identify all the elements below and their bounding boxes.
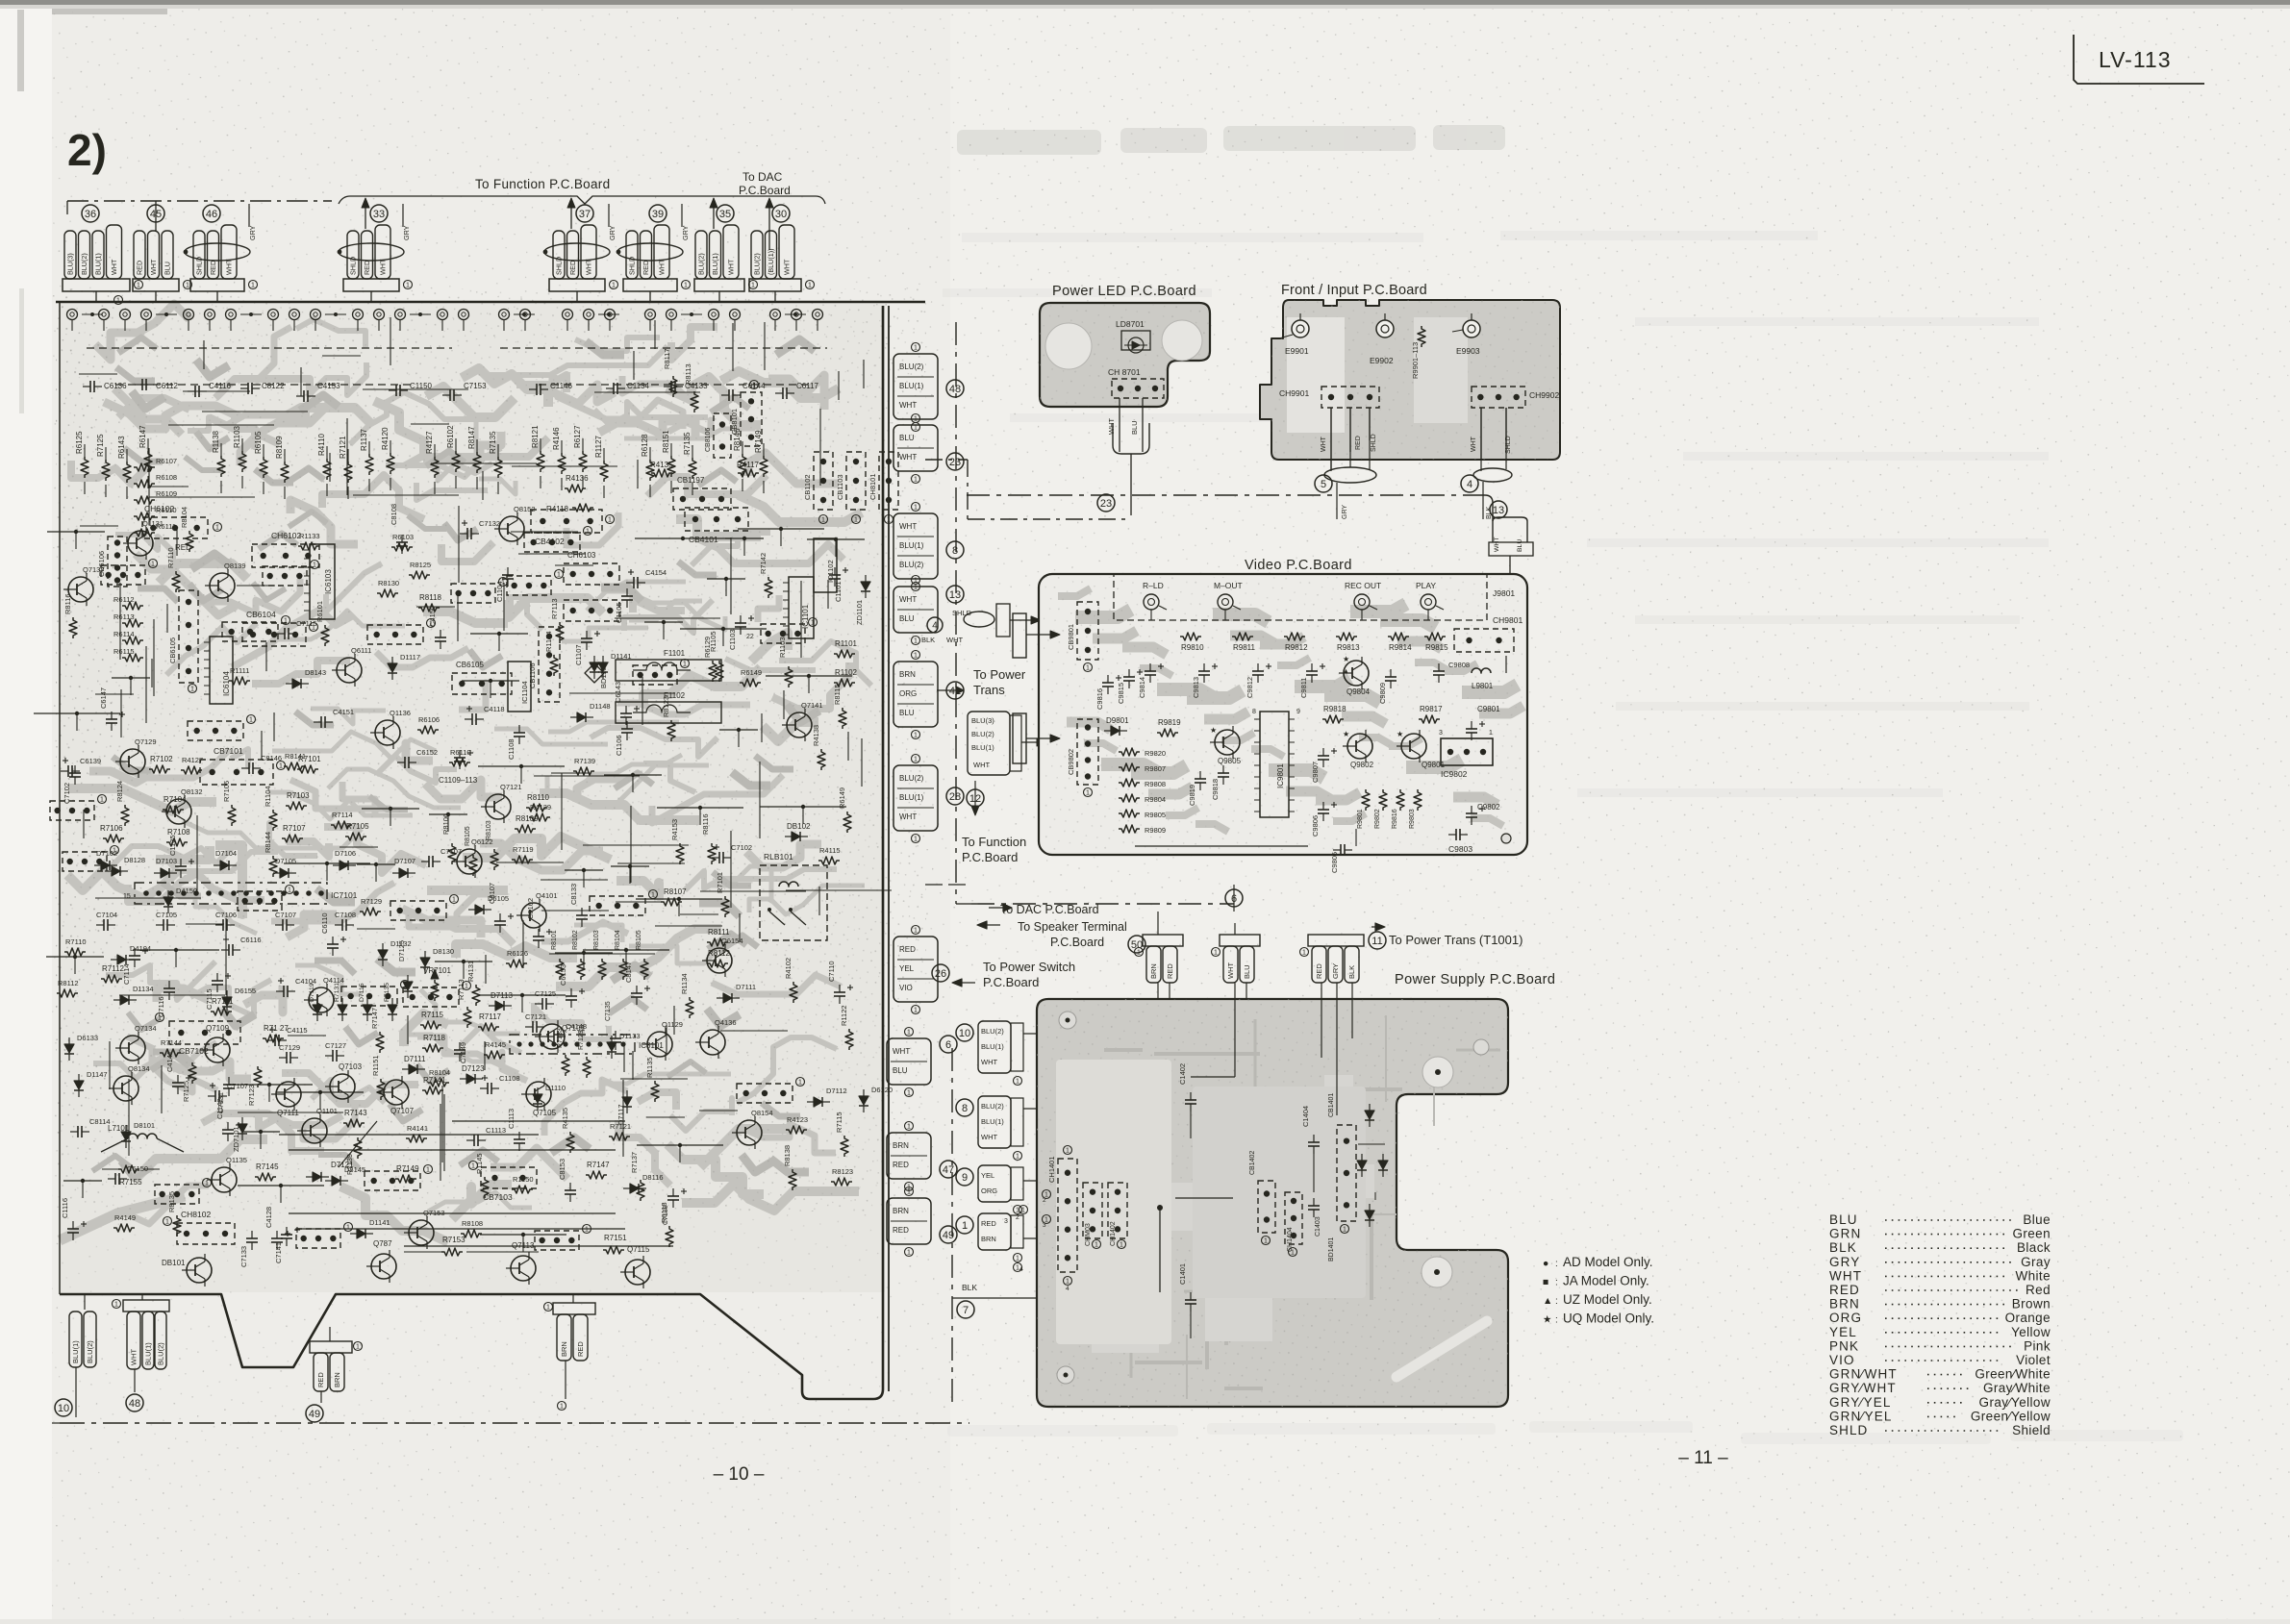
- svg-text:Yellow: Yellow: [2011, 1325, 2051, 1339]
- wire: [480, 1234, 566, 1236]
- capacitor C8143: [194, 386, 196, 397]
- svg-text:D9801: D9801: [1106, 716, 1129, 725]
- svg-text:BD1101: BD1101: [599, 662, 608, 688]
- svg-text:IC6104: IC6104: [222, 671, 231, 696]
- capacitor C7102: [69, 772, 81, 774]
- svg-text:R7125: R7125: [182, 1081, 190, 1102]
- wire: [462, 680, 519, 682]
- svg-text:1: 1: [356, 1344, 360, 1351]
- svg-text:GRY: GRY: [1829, 1255, 1860, 1269]
- svg-text:C4154: C4154: [645, 568, 667, 577]
- capacitor C4127: [228, 944, 230, 956]
- svg-text:C9808: C9808: [1448, 661, 1470, 669]
- svg-text:Q7129: Q7129: [135, 737, 157, 746]
- resistor R4103: [428, 1079, 449, 1087]
- svg-text:R8105: R8105: [465, 826, 471, 846]
- svg-text:C1103: C1103: [728, 629, 737, 650]
- svg-text:BLK: BLK: [921, 636, 935, 644]
- circled 4 shield: [927, 617, 943, 633]
- svg-text:R6111: R6111: [156, 522, 176, 531]
- transistor Q1104: [409, 1220, 434, 1245]
- svg-text:R9801: R9801: [1357, 809, 1364, 829]
- svg-text:Green: Green: [2012, 1227, 2051, 1241]
- svg-text:WHT: WHT: [1321, 436, 1327, 452]
- svg-text:1: 1: [1095, 1242, 1098, 1249]
- svg-text:C4118: C4118: [484, 705, 505, 713]
- svg-text:BLU(2): BLU(2): [80, 253, 88, 275]
- front input outline: [1260, 300, 1560, 460]
- resistor R8116: [708, 843, 716, 864]
- resistor R4136: [565, 485, 586, 492]
- svg-text:R1134: R1134: [680, 973, 689, 994]
- svg-text:E9901: E9901: [1285, 346, 1309, 356]
- svg-text:CHM03: CHM03: [1085, 1223, 1092, 1246]
- connector CB6129: [633, 665, 677, 685]
- transistor Q8106: [787, 712, 812, 737]
- resistor R1105: [113, 1224, 135, 1232]
- svg-text:R7145: R7145: [256, 1162, 279, 1171]
- svg-text:C9819: C9819: [1188, 785, 1196, 806]
- capacitor C8107: [471, 713, 473, 725]
- svg-text:C1404: C1404: [1301, 1106, 1310, 1127]
- svg-text:R7102: R7102: [150, 755, 173, 763]
- capacitor C1401: [1185, 1299, 1196, 1301]
- connector CH6102: [142, 517, 208, 538]
- svg-text:R8113: R8113: [684, 363, 692, 385]
- ps junction dot: [1157, 1205, 1163, 1211]
- svg-text:D7102: D7102: [96, 849, 117, 858]
- svg-text:Q1135: Q1135: [226, 1156, 247, 1164]
- svg-text:1: 1: [1214, 950, 1218, 957]
- svg-text:GRY: GRY: [608, 225, 617, 240]
- connector CH1402: [1108, 1183, 1127, 1238]
- svg-text:1: 1: [751, 283, 755, 289]
- diode D7111: [409, 1064, 417, 1074]
- transistor Q6139: [457, 849, 482, 874]
- svg-text:R8115: R8115: [833, 684, 842, 705]
- svg-text:1: 1: [186, 283, 189, 289]
- svg-text:CB6106: CB6106: [97, 551, 106, 577]
- svg-text:R1133: R1133: [299, 532, 320, 540]
- svg-text:1: 1: [907, 1189, 911, 1196]
- svg-text:R9816: R9816: [1392, 809, 1398, 829]
- svg-text:R4131: R4131: [466, 961, 475, 982]
- svg-text:C6152: C6152: [416, 748, 438, 757]
- svg-text:★: ★: [1543, 1314, 1552, 1326]
- resistor R8137: [186, 531, 193, 552]
- svg-text:R9811: R9811: [1233, 643, 1256, 652]
- svg-text:R4120: R4120: [381, 427, 390, 450]
- svg-text:R9813: R9813: [1337, 643, 1360, 652]
- svg-text:BRN: BRN: [981, 1235, 996, 1243]
- resistor R8111: [707, 938, 728, 946]
- svg-text:R1135: R1135: [645, 1057, 654, 1078]
- left column speckle: [56, 288, 113, 1154]
- svg-text:R7118: R7118: [423, 1034, 446, 1042]
- ps wire from 50 down: [1157, 912, 1159, 935]
- svg-text:R7121: R7121: [339, 436, 347, 459]
- circled 48 bottom: [126, 1394, 143, 1412]
- svg-text:D7119: D7119: [309, 983, 315, 1002]
- svg-text:R9812: R9812: [1285, 643, 1308, 652]
- svg-text:C6110: C6110: [320, 912, 329, 934]
- ic IC9802: [1441, 738, 1493, 765]
- power supply outline: [1037, 999, 1508, 1407]
- svg-text:R4118: R4118: [546, 505, 569, 513]
- diode D7125: [403, 982, 413, 990]
- svg-text:1: 1: [914, 585, 918, 591]
- svg-text:C1113: C1113: [486, 1126, 506, 1135]
- svg-text:YEL: YEL: [981, 1171, 994, 1180]
- svg-text:R4123: R4123: [787, 1115, 808, 1124]
- svg-text:C9816: C9816: [1095, 688, 1104, 710]
- resistor R7137: [637, 1180, 644, 1201]
- video left incoming connector b: [1013, 713, 1026, 763]
- svg-text:1: 1: [854, 517, 858, 524]
- svg-text:1: 1: [114, 1302, 118, 1309]
- connector CB6106: [108, 537, 127, 587]
- capacitor C7114: [129, 955, 140, 957]
- svg-text:BLU(2): BLU(2): [753, 253, 762, 275]
- connector CB1145: [507, 576, 551, 595]
- svg-text:C4116: C4116: [209, 382, 232, 390]
- capacitor C8110: [271, 1237, 283, 1239]
- svg-text:C9814: C9814: [1138, 677, 1146, 698]
- capacitor C7120: [565, 1189, 576, 1191]
- connector group 39: [626, 231, 638, 279]
- svg-text:R4146: R4146: [552, 427, 561, 450]
- svg-text:UQ Model Only.: UQ Model Only.: [1563, 1312, 1654, 1326]
- wire: [725, 537, 764, 539]
- svg-text:2): 2): [67, 125, 107, 175]
- svg-text:GRY: GRY: [402, 225, 411, 240]
- svg-text:WHT: WHT: [1107, 418, 1116, 435]
- diode D7107: [332, 1176, 340, 1186]
- wire: [34, 712, 120, 714]
- svg-text:R8106: R8106: [441, 813, 450, 835]
- svg-text:1: 1: [1343, 1227, 1346, 1234]
- diode DB102: [792, 832, 800, 841]
- transistor Q7113: [511, 1256, 536, 1281]
- svg-text:R8111: R8111: [708, 928, 730, 937]
- strip connector 13: [893, 587, 938, 633]
- svg-text:D6133: D6133: [77, 1034, 98, 1042]
- svg-text:Q6111: Q6111: [351, 646, 371, 655]
- svg-text:GRY⁄WHT: GRY⁄WHT: [1829, 1381, 1897, 1395]
- resistor R8110: [144, 451, 152, 472]
- transistor Q6125: [302, 1118, 327, 1143]
- wire: [470, 633, 528, 635]
- svg-text:P.C.Board: P.C.Board: [1050, 936, 1104, 949]
- svg-text:D8116: D8116: [642, 1173, 664, 1182]
- svg-text::: :: [1555, 1296, 1558, 1307]
- svg-text:WHT: WHT: [981, 1058, 997, 1066]
- svg-text:R9808: R9808: [1145, 780, 1166, 788]
- svg-text:CB7101: CB7101: [214, 746, 243, 756]
- long wire rows low: [289, 1212, 616, 1214]
- svg-text:L7101: L7101: [108, 1124, 130, 1133]
- capacitor C7121: [532, 1021, 534, 1033]
- svg-text:1: 1: [821, 517, 825, 524]
- svg-text:WHT: WHT: [727, 259, 736, 275]
- svg-text:●: ●: [1543, 1258, 1548, 1269]
- svg-text:R1122: R1122: [840, 1005, 848, 1026]
- svg-text:R7123: R7123: [247, 1085, 256, 1106]
- svg-text:WHT: WHT: [899, 595, 917, 604]
- diode D6137: [74, 1081, 84, 1089]
- resistor R8118: [418, 604, 440, 612]
- svg-text:To Power: To Power: [973, 667, 1026, 682]
- svg-text:CB1103: CB1103: [836, 474, 844, 500]
- capacitor C8147: [89, 381, 91, 392]
- capacitor C4145: [620, 712, 632, 714]
- svg-text:R7139: R7139: [574, 757, 595, 765]
- svg-text:R8112: R8112: [58, 979, 79, 987]
- svg-text:R7147: R7147: [370, 1008, 379, 1029]
- svg-text:CB6105: CB6105: [456, 661, 484, 669]
- svg-text:VR7101: VR7101: [423, 966, 451, 975]
- svg-text:8: 8: [962, 1103, 968, 1114]
- wire: [47, 531, 105, 533]
- strip connector 28: [893, 765, 938, 831]
- svg-text:30: 30: [775, 209, 787, 220]
- transistor Q9801: [1401, 734, 1426, 759]
- svg-text:R7135: R7135: [489, 431, 497, 454]
- connector group 30: [751, 231, 763, 279]
- diode transistor DB101: [187, 1258, 212, 1283]
- svg-text:C1402: C1402: [1178, 1063, 1187, 1085]
- svg-text:R71 27: R71 27: [264, 1024, 289, 1033]
- connector pill RED BRN bottom: [310, 1341, 352, 1353]
- svg-text:CH 8701: CH 8701: [1108, 367, 1141, 377]
- wire: [707, 578, 745, 580]
- capacitor C9809: [1385, 676, 1397, 678]
- svg-text:Brown: Brown: [2012, 1297, 2051, 1312]
- front shield cable 4: [1473, 468, 1512, 482]
- svg-text:DB102: DB102: [787, 822, 811, 831]
- ps inner wires: [1157, 999, 1159, 1034]
- svg-text:C7139: C7139: [663, 1205, 669, 1225]
- circled 50: [1128, 936, 1145, 953]
- svg-text:R9820: R9820: [1145, 749, 1166, 758]
- svg-text:BRN: BRN: [899, 670, 916, 679]
- svg-text:R9819: R9819: [1158, 718, 1181, 727]
- svg-text:D1133: D1133: [619, 1032, 641, 1040]
- svg-text:26: 26: [935, 968, 946, 980]
- svg-text:R9817: R9817: [1420, 705, 1443, 713]
- power supply speckle: [1037, 999, 1508, 1407]
- svg-text:BLU(2): BLU(2): [971, 730, 994, 738]
- svg-text:R8124: R8124: [115, 781, 124, 802]
- svg-text:BLU(2): BLU(2): [981, 1027, 1004, 1036]
- svg-text:BLU: BLU: [893, 1066, 908, 1075]
- resistor R6122: [843, 812, 851, 833]
- svg-text:CB4101: CB4101: [689, 535, 718, 544]
- svg-text:R1103: R1103: [233, 425, 241, 448]
- svg-text:1: 1: [1120, 1242, 1123, 1249]
- svg-text:BLU(2): BLU(2): [697, 253, 706, 275]
- wire: [133, 949, 219, 951]
- resistor R1155: [550, 655, 558, 676]
- capacitor C7154: [172, 1082, 184, 1084]
- svg-text:C8107: C8107: [488, 883, 496, 904]
- svg-text:R7141: R7141: [423, 1076, 446, 1085]
- resistor R8127: [331, 821, 352, 829]
- svg-text:★: ★: [1210, 726, 1217, 735]
- connector CB1401: [1337, 1125, 1356, 1221]
- video resistor fan R9820 R9807 R9808 R9804 R9805 R9809: [1119, 748, 1140, 756]
- svg-text:C1146: C1146: [550, 382, 573, 390]
- wire: [807, 538, 865, 540]
- svg-text:Q1136: Q1136: [390, 709, 411, 717]
- svg-text:GRY: GRY: [1342, 505, 1348, 519]
- svg-text:C6136: C6136: [104, 382, 127, 390]
- svg-text:6: 6: [945, 1039, 951, 1051]
- svg-text:47: 47: [943, 1164, 954, 1176]
- wire: [241, 1131, 280, 1133]
- svg-text::: :: [1555, 1259, 1558, 1269]
- ps hole bottom left: [1057, 1366, 1074, 1384]
- svg-text:RED: RED: [1355, 436, 1362, 450]
- svg-text:Power Supply P.C.Board: Power Supply P.C.Board: [1395, 972, 1555, 987]
- connector CB8105mid: [452, 673, 512, 694]
- svg-text:RED: RED: [893, 1161, 909, 1169]
- diode D4114: [533, 1094, 542, 1103]
- resistor R6152: [558, 453, 566, 474]
- front shield cable 5: [1324, 467, 1376, 483]
- connector CB8103: [564, 563, 619, 585]
- shield wire to video: [964, 612, 994, 627]
- svg-text:1: 1: [100, 797, 104, 804]
- svg-text:R1101: R1101: [835, 639, 858, 648]
- resistor R7117: [478, 1023, 499, 1031]
- capacitor C8115: [248, 762, 250, 774]
- svg-text:WHT: WHT: [1471, 436, 1477, 452]
- ps mid wire: [1175, 1197, 1233, 1199]
- connector CH9902: [1472, 387, 1525, 408]
- svg-text:Green⁄White: Green⁄White: [1975, 1367, 2051, 1382]
- svg-text:BLK: BLK: [1347, 965, 1356, 979]
- svg-text:49: 49: [309, 1409, 320, 1420]
- svg-text:4: 4: [1066, 1286, 1070, 1292]
- svg-text:R7115: R7115: [421, 1011, 444, 1019]
- svg-text:R8117: R8117: [663, 348, 671, 369]
- svg-text:C9813: C9813: [1192, 677, 1200, 698]
- transistor Q6121: [120, 749, 145, 774]
- wire wht blu: [1220, 935, 1260, 946]
- svg-text:E9902: E9902: [1370, 356, 1394, 365]
- capacitor C8111: [514, 1138, 525, 1140]
- resistor R6107: [160, 1049, 181, 1057]
- capacitor C7106: [834, 991, 845, 993]
- svg-text:D6155: D6155: [235, 987, 256, 995]
- svg-text:WHT: WHT: [973, 761, 990, 769]
- svg-text:C8102: C8102: [526, 898, 535, 919]
- resistor R8134: [789, 1169, 796, 1190]
- resistor R8117 R8113: [669, 376, 677, 397]
- svg-text:R4145: R4145: [485, 1040, 506, 1049]
- video board trace field: [1058, 588, 1091, 596]
- svg-text:R4135: R4135: [561, 1108, 569, 1129]
- svg-text:8: 8: [1252, 709, 1256, 715]
- zener ZD7101: [238, 1124, 247, 1133]
- svg-text:4: 4: [932, 621, 938, 632]
- resistor R7114: [472, 985, 480, 1006]
- svg-text:RED: RED: [568, 261, 577, 275]
- svg-text:1: 1: [560, 1404, 564, 1411]
- svg-text:IC7101: IC7101: [331, 890, 358, 900]
- svg-text:To DAC P.C.Board: To DAC P.C.Board: [1000, 903, 1099, 916]
- resistor R1103: [785, 666, 793, 687]
- svg-text:D7103: D7103: [156, 857, 177, 865]
- resistor R8114: [667, 720, 675, 741]
- svg-text:Red: Red: [2026, 1283, 2051, 1297]
- resistor R7101: [297, 765, 318, 773]
- front input inner white: [1287, 317, 1345, 433]
- svg-text:GRY: GRY: [681, 225, 690, 240]
- svg-text:R6107: R6107: [156, 457, 177, 465]
- svg-text:RED: RED: [642, 261, 650, 275]
- connector CB8103: [63, 852, 107, 871]
- svg-text:R8103: R8103: [593, 930, 600, 950]
- resistor R7136: [102, 460, 110, 481]
- capacitor C7149: [454, 1049, 466, 1051]
- video small hole: [1501, 834, 1511, 843]
- svg-text:R9901–113: R9901–113: [1411, 342, 1420, 379]
- svg-text:WHT: WHT: [225, 259, 234, 275]
- svg-text:49: 49: [943, 1230, 954, 1241]
- connector CH1403: [1083, 1183, 1102, 1238]
- wire: [636, 898, 722, 900]
- resistor R6107: [431, 457, 439, 478]
- svg-text:RED: RED: [1315, 963, 1323, 979]
- wire: [479, 994, 566, 996]
- connector CB6104: [242, 623, 306, 646]
- wire: [357, 863, 395, 865]
- svg-text:1: 1: [452, 897, 456, 904]
- svg-text:WHT: WHT: [899, 401, 917, 410]
- svg-text:Q7115: Q7115: [627, 1245, 650, 1254]
- svg-text:GRY: GRY: [248, 225, 257, 240]
- capacitor C9808: [1433, 670, 1445, 672]
- resistor R1125: [760, 456, 768, 477]
- svg-text:1: 1: [151, 562, 155, 568]
- svg-text:R7143: R7143: [344, 1109, 367, 1117]
- svg-text:D7123: D7123: [462, 1064, 485, 1073]
- svg-text:CH1401: CH1401: [1047, 1156, 1056, 1183]
- resistor R8110 R8109: [526, 804, 547, 812]
- connector CB1106: [539, 627, 560, 702]
- svg-text:BLU(2): BLU(2): [899, 774, 924, 783]
- svg-text:Q8154: Q8154: [751, 1109, 773, 1117]
- jack E9903: [1463, 320, 1480, 337]
- svg-text:WHT: WHT: [658, 259, 667, 275]
- svg-text:IC8101: IC8101: [639, 1041, 664, 1050]
- wire to CB8105: [635, 537, 731, 539]
- capacitor C1151: [553, 1031, 555, 1042]
- wire: [429, 813, 467, 815]
- svg-text:R7135: R7135: [384, 983, 390, 1002]
- transistor Q7111: [276, 1082, 301, 1107]
- svg-text:1: 1: [1016, 1154, 1019, 1161]
- svg-text:R7105: R7105: [346, 822, 369, 831]
- svg-text:CB8106: CB8106: [705, 428, 712, 452]
- capacitor C1145: [728, 389, 730, 401]
- svg-text:Q7105: Q7105: [533, 1109, 557, 1117]
- capacitor C8120: [782, 387, 784, 399]
- wire: [435, 961, 492, 962]
- svg-text:R4115: R4115: [819, 846, 841, 855]
